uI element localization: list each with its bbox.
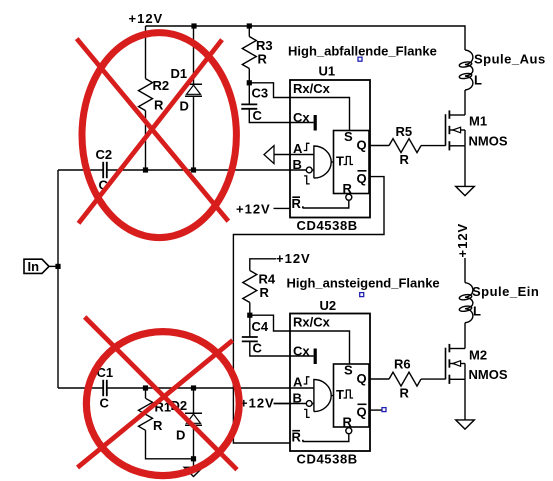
svg-text:R: R [154, 98, 164, 113]
svg-text:+12V: +12V [129, 11, 164, 26]
svg-text:D: D [176, 428, 185, 443]
svg-text:High_abfallende_Flanke: High_abfallende_Flanke [288, 44, 437, 59]
svg-text:R2: R2 [153, 78, 170, 93]
svg-text:C: C [253, 341, 263, 356]
svg-text:R: R [153, 418, 163, 433]
svg-text:+12V: +12V [240, 396, 275, 411]
svg-text:L: L [473, 304, 481, 319]
svg-text:M2: M2 [469, 348, 487, 363]
svg-text:U1: U1 [319, 64, 336, 79]
svg-text:U2: U2 [320, 298, 337, 313]
svg-text:D: D [180, 99, 189, 114]
svg-text:R5: R5 [396, 124, 413, 139]
svg-text:R: R [258, 52, 268, 67]
svg-text:C3: C3 [252, 86, 269, 101]
svg-text:Spule_Aus: Spule_Aus [474, 52, 546, 67]
svg-text:+12V: +12V [276, 251, 311, 266]
svg-text:L: L [474, 73, 482, 88]
svg-text:C2: C2 [96, 147, 113, 162]
svg-text:R6: R6 [394, 357, 411, 372]
svg-text:C4: C4 [252, 319, 269, 334]
svg-text:C: C [100, 396, 110, 411]
svg-text:D1: D1 [171, 66, 188, 81]
svg-text:M1: M1 [469, 114, 487, 129]
svg-text:High_ansteigend_Flanke: High_ansteigend_Flanke [287, 276, 440, 291]
svg-text:+12V: +12V [236, 202, 271, 217]
svg-text:Spule_Ein: Spule_Ein [472, 284, 539, 299]
svg-text:+12V: +12V [455, 223, 470, 258]
svg-text:In: In [28, 259, 40, 274]
svg-text:C: C [253, 108, 263, 123]
svg-text:R: R [260, 285, 270, 300]
